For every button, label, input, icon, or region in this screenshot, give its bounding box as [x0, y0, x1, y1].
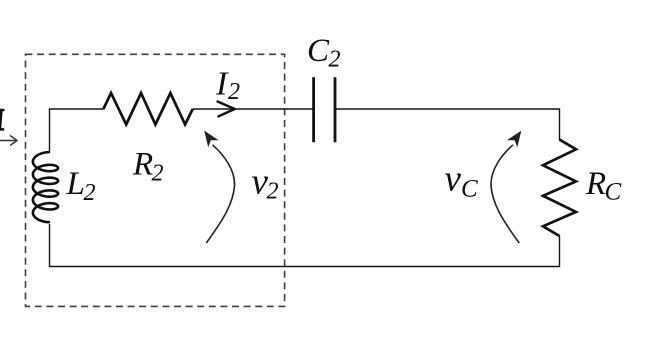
svg-text:2: 2 — [329, 46, 341, 72]
svg-text:R: R — [132, 147, 153, 183]
svg-text:R: R — [585, 166, 606, 202]
vC voltage arc arrow — [491, 145, 519, 243]
I2 current arrowhead on wire — [218, 102, 235, 117]
svg-text:L: L — [66, 166, 85, 202]
wire: C2 right plate to right corner down to RC — [336, 109, 560, 140]
svg-text:C: C — [461, 175, 478, 202]
v2 voltage arc arrow — [206, 145, 234, 243]
capacitor C2 right plate — [334, 77, 337, 142]
label I (clipped at left edge) — [0, 109, 4, 131]
resistor RC zigzag — [543, 140, 576, 236]
inductor L2 coil — [33, 152, 58, 222]
svg-text:2: 2 — [228, 79, 240, 105]
svg-text:I: I — [215, 65, 229, 102]
svg-text:2: 2 — [267, 179, 279, 205]
svg-text:2: 2 — [84, 180, 96, 206]
wire: R2 to C2 left plate — [193, 108, 314, 110]
resistor R2 zigzag — [103, 93, 192, 125]
svg-text:v: v — [445, 159, 462, 200]
wire top-left: left corner to R2 — [50, 109, 104, 153]
svg-text:C: C — [605, 179, 622, 206]
svg-text:2: 2 — [152, 160, 164, 186]
capacitor C2 left plate — [312, 77, 315, 142]
small input current arrow at left edge — [0, 136, 17, 145]
svg-text:C: C — [307, 33, 330, 69]
dashed subcircuit box — [26, 54, 285, 306]
wire: RC bottom, bottom rail, up to inductor — [50, 224, 560, 267]
